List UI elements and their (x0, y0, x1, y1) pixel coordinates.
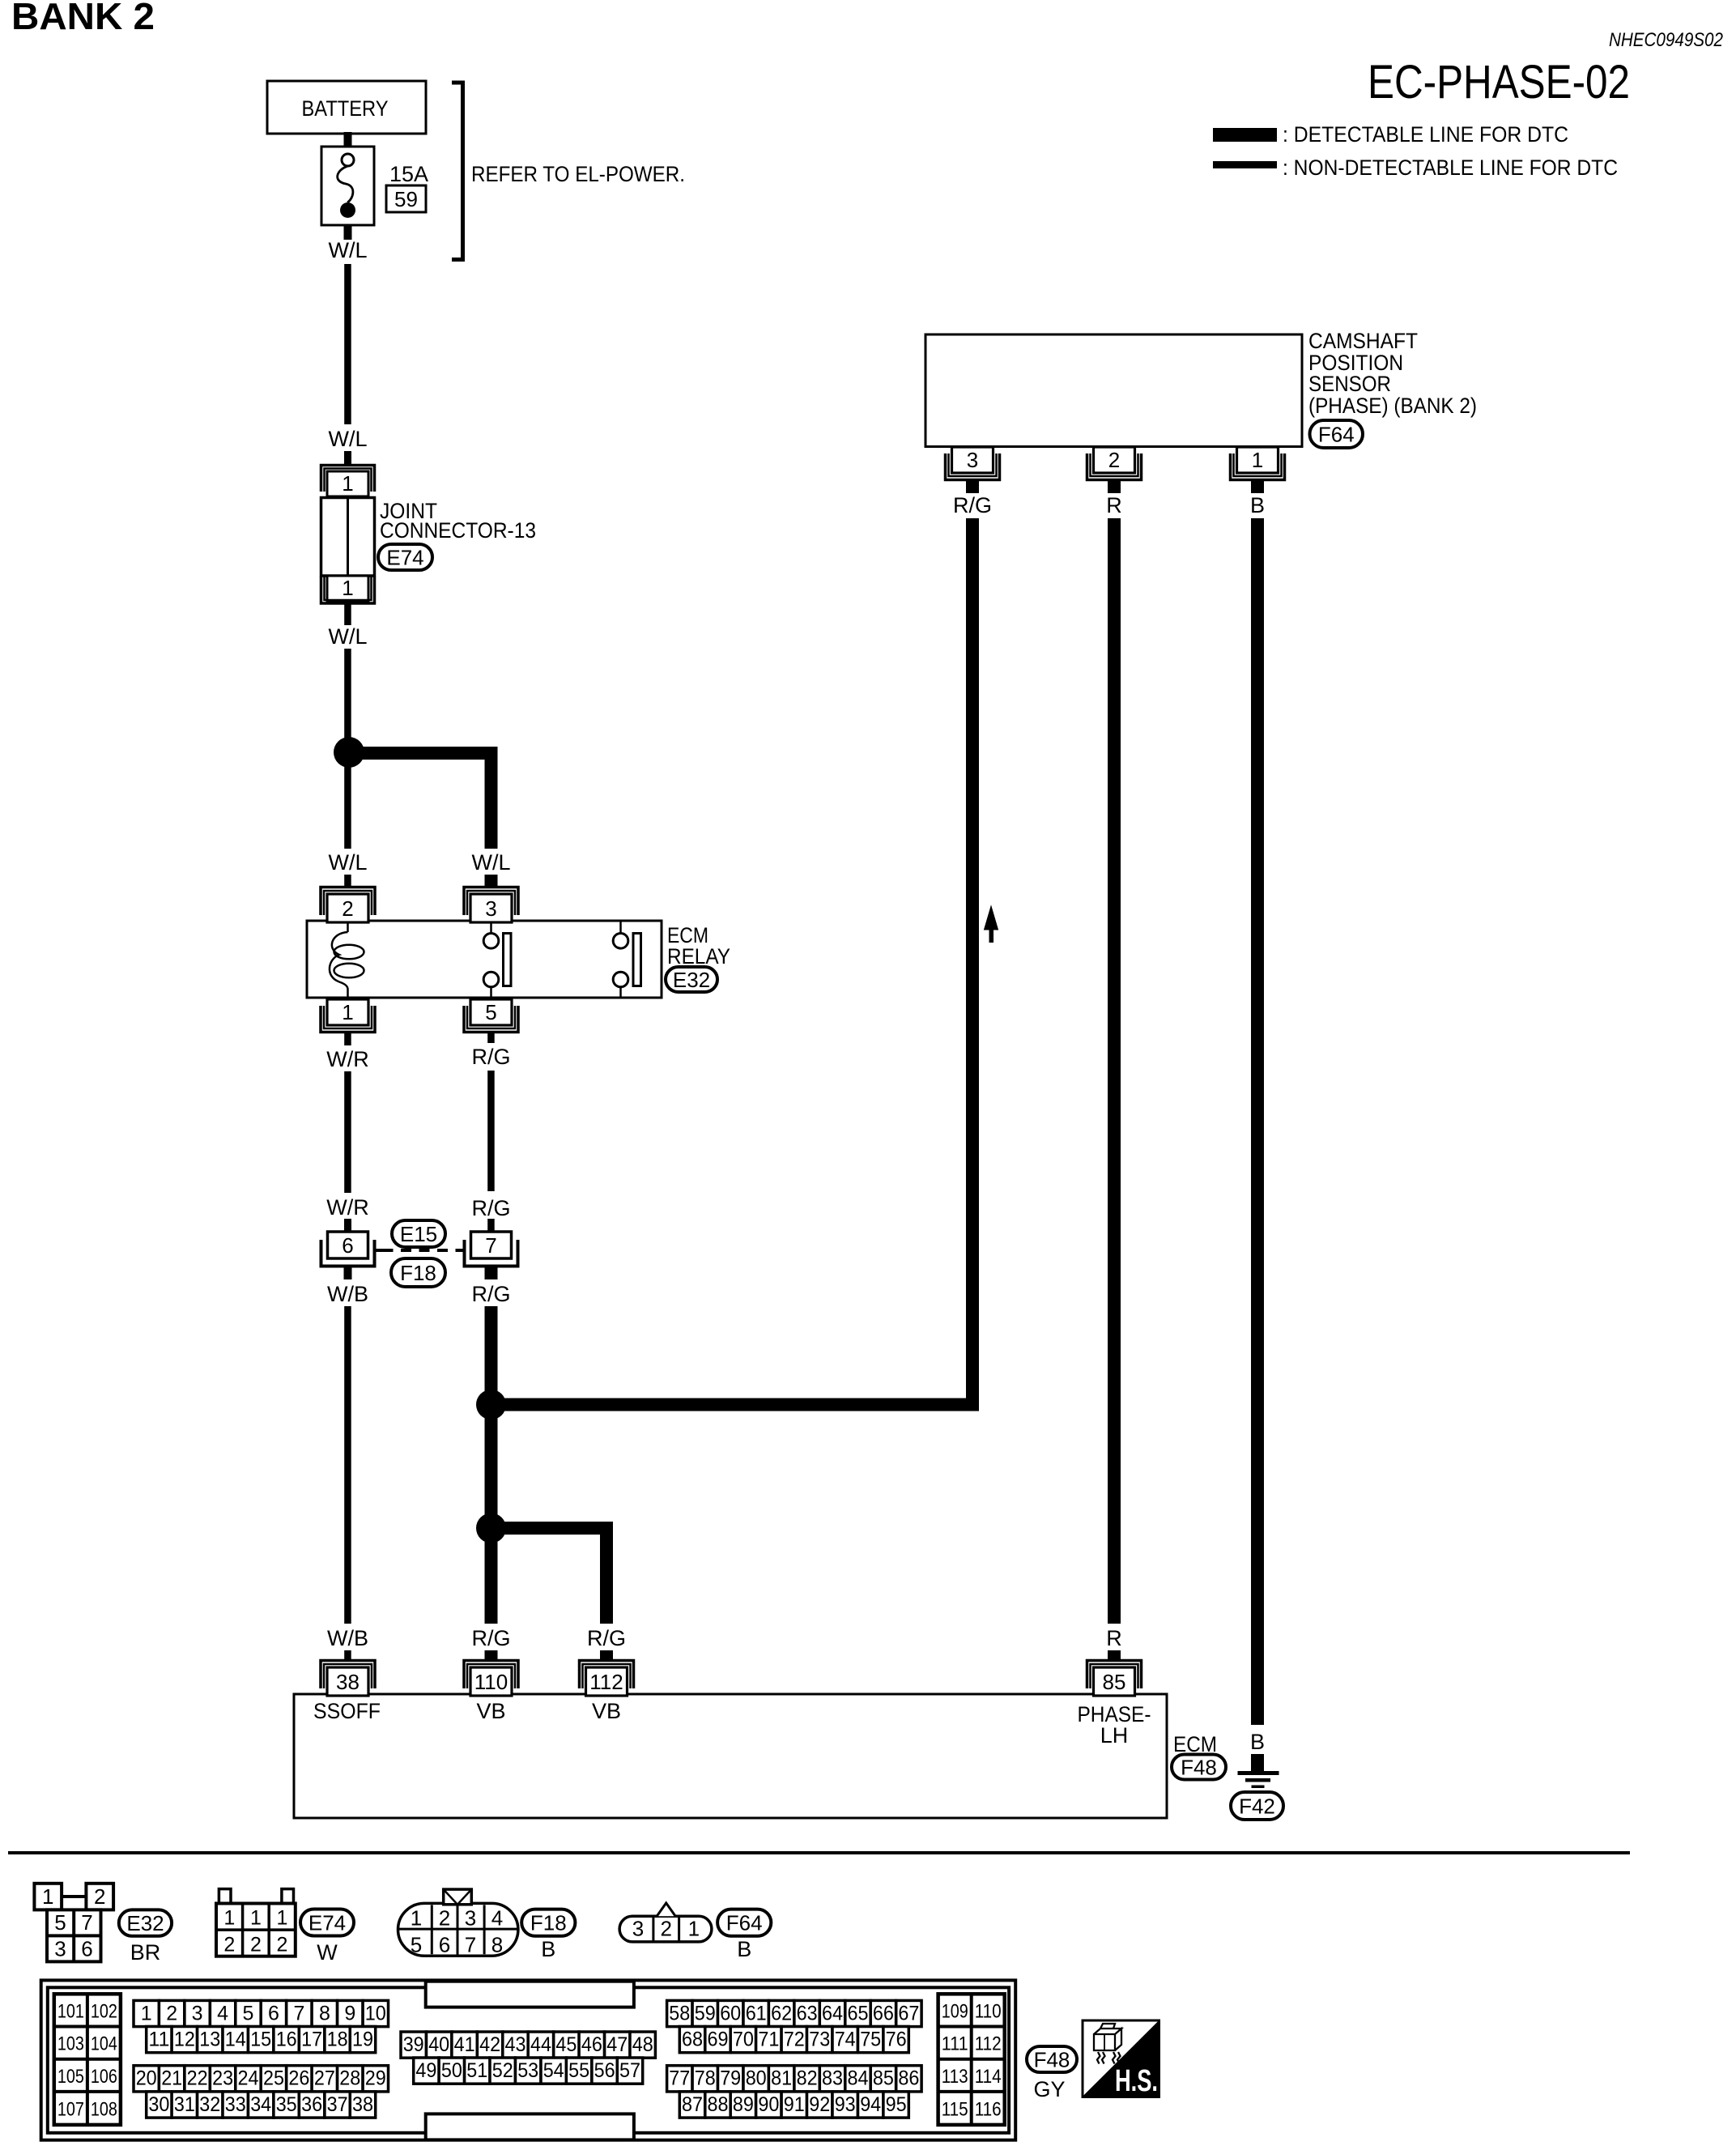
svg-text:27: 27 (314, 2067, 335, 2090)
battery (267, 81, 426, 134)
svg-text:29: 29 (365, 2067, 386, 2090)
svg-text:90: 90 (758, 2093, 779, 2116)
bracket refer to el-power (452, 83, 463, 260)
svg-text:2: 2 (1108, 448, 1120, 472)
svg-text:75: 75 (860, 2029, 881, 2051)
svg-text:58: 58 (669, 2002, 690, 2024)
legend detectable line sample (1213, 128, 1277, 142)
svg-text:4: 4 (491, 1906, 503, 1931)
wire battery to fuse (344, 132, 352, 147)
connector ref E32 (119, 1909, 172, 1935)
svg-text:21: 21 (161, 2067, 182, 2090)
svg-text:54: 54 (543, 2059, 564, 2082)
wire junction 2 horizontal (491, 1522, 614, 1535)
wire stub below sensor pin 1 (1251, 479, 1264, 493)
svg-text:H.S.: H.S. (1115, 2064, 1158, 2098)
svg-text:16: 16 (276, 2029, 297, 2051)
svg-text:1: 1 (223, 1907, 235, 1930)
relay pin 2 (321, 888, 375, 916)
svg-text:50: 50 (441, 2059, 462, 2082)
relay coil (347, 922, 349, 933)
ECM connector pin row 87-95 (679, 2092, 704, 2118)
ECM connector pin row 68-76 (679, 2027, 704, 2053)
svg-text:24: 24 (238, 2067, 259, 2090)
svg-text:LH: LH (1100, 1723, 1129, 1748)
svg-text:E74: E74 (386, 545, 423, 569)
svg-text:VB: VB (476, 1699, 505, 1723)
svg-text:R/G: R/G (953, 493, 992, 517)
camshaft position sensor box F64 (925, 334, 1302, 447)
svg-text:BATTERY: BATTERY (302, 96, 389, 121)
svg-text:112: 112 (975, 2033, 1002, 2055)
svg-text:67: 67 (898, 2002, 919, 2024)
svg-text:9: 9 (344, 2002, 355, 2024)
svg-text:38: 38 (352, 2093, 373, 2116)
wire W/L branch vertical to relay pin 3 (485, 747, 498, 849)
direction arrow up (985, 906, 998, 930)
svg-text:114: 114 (975, 2066, 1002, 2088)
svg-text:59: 59 (695, 2002, 716, 2024)
svg-text:52: 52 (492, 2059, 513, 2082)
inline connector pin 6 (328, 1232, 368, 1258)
connector view F64 pinout (619, 1916, 712, 1942)
connector ref E74 (378, 544, 432, 570)
svg-text:1: 1 (42, 1884, 53, 1909)
svg-text:92: 92 (809, 2093, 830, 2116)
svg-text:65: 65 (848, 2002, 869, 2024)
svg-text:7: 7 (485, 1233, 496, 1258)
svg-text:5: 5 (485, 1000, 496, 1024)
svg-text:1: 1 (342, 471, 353, 496)
svg-text:71: 71 (758, 2029, 779, 2051)
wire stub to pin 38 (344, 1650, 351, 1662)
svg-text:B: B (1250, 1730, 1265, 1754)
wire W/L branch horizontal (349, 747, 498, 760)
svg-text:85: 85 (873, 2067, 894, 2090)
svg-text:E74: E74 (308, 1910, 346, 1935)
svg-text:3: 3 (54, 1937, 66, 1961)
svg-text:70: 70 (733, 2029, 754, 2051)
connector ref F64 (717, 1909, 771, 1936)
wire branch down to pin 112 (600, 1522, 613, 1624)
wire stub below pin 7 thick (485, 1267, 498, 1280)
svg-text:4: 4 (217, 2002, 228, 2024)
wire W/R (344, 1071, 351, 1193)
svg-text:1: 1 (250, 1907, 262, 1930)
ECM connector pin row 1-10 (134, 2000, 159, 2026)
svg-text:106: 106 (91, 2066, 117, 2088)
svg-text:66: 66 (873, 2002, 894, 2024)
svg-text:W/L: W/L (328, 238, 367, 262)
wire W/L (344, 264, 351, 424)
svg-text:112: 112 (589, 1670, 623, 1694)
wire R/G down through junctions (485, 1306, 498, 1624)
svg-text:7: 7 (81, 1910, 92, 1935)
svg-text:W/R: W/R (326, 1195, 368, 1220)
svg-text:NHEC0949S02: NHEC0949S02 (1609, 29, 1723, 51)
svg-text:33: 33 (225, 2093, 246, 2116)
svg-text:CAMSHAFT: CAMSHAFT (1308, 329, 1418, 353)
svg-text:7: 7 (465, 1933, 476, 1957)
svg-text:W/L: W/L (328, 850, 367, 875)
svg-text:15A: 15A (389, 162, 428, 186)
svg-text:2: 2 (166, 2002, 177, 2024)
junction node dot (476, 1390, 506, 1420)
ECM connector pin row 20-29 (134, 2066, 159, 2092)
wire stub to pin 110 (485, 1650, 498, 1662)
ECM connector pin row 49-57 (414, 2058, 439, 2084)
ECM connector top slot (426, 1982, 634, 2007)
svg-text:BANK 2: BANK 2 (11, 0, 155, 37)
svg-text:EC-PHASE-02: EC-PHASE-02 (1368, 56, 1630, 109)
H.S. harness side view icon (1083, 2020, 1159, 2098)
svg-text:45: 45 (555, 2033, 577, 2056)
wire stub to pin 7 (487, 1219, 495, 1232)
connector view E74 joint connector pinout (219, 1889, 231, 1904)
svg-text:R/G: R/G (471, 1045, 510, 1069)
F18 keying symbol (444, 1889, 472, 1905)
svg-text:2: 2 (342, 896, 353, 921)
wire junction 1 horizontal to sensor R/G (491, 1399, 980, 1411)
svg-text:W/B: W/B (327, 1282, 368, 1306)
svg-text:69: 69 (708, 2029, 729, 2051)
wire stub to pin 6 (344, 1219, 351, 1232)
svg-text:R/G: R/G (587, 1626, 626, 1650)
svg-text:1: 1 (411, 1906, 422, 1931)
svg-text:3: 3 (465, 1906, 476, 1931)
svg-text:18: 18 (327, 2029, 348, 2051)
ECM connector pin row 58-67 (667, 2000, 692, 2026)
svg-text:81: 81 (771, 2067, 792, 2090)
svg-text:6: 6 (439, 1933, 450, 1957)
relay contact left (490, 922, 492, 934)
svg-text:3: 3 (192, 2002, 203, 2024)
svg-text:55: 55 (568, 2059, 589, 2082)
relay contact bar left (504, 934, 512, 986)
ECM connector pin row 11-19 (147, 2027, 172, 2053)
svg-text:R/G: R/G (471, 1196, 510, 1220)
sensor pin 1 (1231, 453, 1285, 480)
connector ref F18 (521, 1909, 575, 1936)
svg-text:111: 111 (942, 2033, 968, 2055)
connector ref F18 (391, 1258, 445, 1287)
ECM pin 110 (464, 1661, 518, 1689)
svg-text:6: 6 (81, 1937, 92, 1961)
svg-text:W/L: W/L (328, 427, 367, 451)
ECM connector view F48 outer (41, 1980, 1016, 2139)
wire W/L below joint connector (344, 603, 351, 625)
svg-text:51: 51 (466, 2059, 487, 2082)
wire R down to ECM pin 85 (1108, 518, 1121, 1624)
separator line (8, 1851, 1630, 1854)
svg-text:17: 17 (301, 2029, 322, 2051)
svg-text:19: 19 (352, 2029, 373, 2051)
svg-text:5: 5 (243, 2002, 254, 2024)
svg-text:RELAY: RELAY (667, 944, 730, 969)
svg-text:74: 74 (835, 2029, 856, 2051)
svg-text:78: 78 (695, 2067, 716, 2090)
svg-text:7: 7 (293, 2002, 304, 2024)
svg-text:43: 43 (505, 2033, 526, 2056)
wire stub to ground (1251, 1754, 1264, 1771)
svg-text:5: 5 (54, 1910, 66, 1935)
ECM connector pin row 77-86 (667, 2066, 692, 2092)
svg-text:5: 5 (411, 1933, 422, 1957)
wire W/L fuse down (344, 225, 352, 240)
svg-text:34: 34 (250, 2093, 271, 2116)
svg-text:2: 2 (250, 1934, 262, 1956)
svg-text:56: 56 (594, 2059, 615, 2082)
svg-text:28: 28 (339, 2067, 360, 2090)
svg-text:F64: F64 (1318, 422, 1355, 446)
wire stub to pin 85 (1108, 1650, 1121, 1662)
F18 grid (398, 1928, 518, 1931)
svg-text:68: 68 (682, 2029, 703, 2051)
connector ref F48 (1172, 1755, 1226, 1780)
inline connector pin 7 (471, 1232, 512, 1258)
sensor pin 2 (1087, 453, 1142, 480)
svg-text:110: 110 (975, 2000, 1002, 2022)
svg-text:76: 76 (886, 2029, 907, 2051)
svg-text:37: 37 (327, 2093, 348, 2116)
F64 keying triangle (657, 1903, 675, 1916)
connector ref E15 (392, 1220, 445, 1247)
ECM connector pin row 30-38 (147, 2092, 172, 2118)
svg-text:: DETECTABLE LINE FOR DTC: : DETECTABLE LINE FOR DTC (1283, 122, 1568, 147)
svg-text:94: 94 (860, 2093, 881, 2116)
svg-text:F64: F64 (726, 1911, 763, 1935)
svg-text:41: 41 (454, 2033, 475, 2056)
svg-text:53: 53 (517, 2059, 538, 2082)
svg-text:108: 108 (91, 2099, 117, 2121)
svg-text:88: 88 (708, 2093, 729, 2116)
svg-text:6: 6 (268, 2002, 279, 2024)
svg-text:109: 109 (942, 2000, 968, 2022)
wire stub to relay pin 3 (485, 875, 498, 888)
svg-text:W/L: W/L (471, 850, 510, 875)
connector ref F64 (1310, 420, 1364, 448)
connector view F18 pinout (398, 1903, 518, 1956)
joint connector-13 E74 top bracket (321, 466, 375, 492)
svg-text:CONNECTOR-13: CONNECTOR-13 (380, 518, 536, 543)
svg-text:R: R (1106, 493, 1122, 517)
svg-text:1: 1 (342, 1000, 353, 1024)
svg-text:83: 83 (822, 2067, 843, 2090)
wire W/B to ECM pin 38 (344, 1306, 351, 1624)
svg-text:35: 35 (276, 2093, 297, 2116)
wire stub below relay pin 1 (344, 1031, 351, 1045)
svg-text:E15: E15 (400, 1222, 437, 1246)
svg-text:80: 80 (746, 2067, 767, 2090)
svg-text:95: 95 (886, 2093, 907, 2116)
wire stub below sensor pin 2 (1108, 479, 1121, 493)
svg-text:48: 48 (632, 2033, 653, 2056)
svg-text:BR: BR (130, 1940, 161, 1965)
svg-text:2: 2 (94, 1884, 105, 1909)
svg-text:105: 105 (57, 2066, 84, 2088)
junction node dot (334, 737, 364, 768)
svg-text:8: 8 (491, 1933, 503, 1957)
svg-text:11: 11 (148, 2029, 169, 2051)
svg-text:GY: GY (1033, 2077, 1065, 2101)
svg-text:B: B (1250, 493, 1265, 517)
svg-text:87: 87 (682, 2093, 703, 2116)
wire stub below pin 6 (344, 1267, 352, 1280)
ECM relay body E32 (307, 921, 662, 998)
wire stub below relay pin 5 (487, 1031, 495, 1043)
svg-text:1: 1 (1252, 448, 1263, 472)
svg-text:116: 116 (975, 2099, 1002, 2121)
svg-text:110: 110 (474, 1670, 508, 1694)
svg-text:W/L: W/L (328, 624, 367, 649)
svg-text:E32: E32 (673, 968, 710, 992)
svg-text:113: 113 (942, 2066, 968, 2088)
svg-text:3: 3 (485, 896, 496, 921)
svg-text:1: 1 (688, 1917, 700, 1941)
svg-text:6: 6 (342, 1233, 353, 1258)
ECM pin 85 (1087, 1661, 1142, 1689)
joint connector-13 E74 body (321, 498, 375, 577)
wire B down to ground (1251, 518, 1264, 1725)
svg-text:: NON-DETECTABLE LINE FOR DTC: : NON-DETECTABLE LINE FOR DTC (1283, 155, 1618, 180)
svg-text:49: 49 (415, 2059, 436, 2082)
svg-text:23: 23 (212, 2067, 233, 2090)
svg-text:38: 38 (336, 1670, 360, 1694)
svg-text:84: 84 (848, 2067, 869, 2090)
svg-text:47: 47 (606, 2033, 628, 2056)
svg-text:14: 14 (225, 2029, 246, 2051)
connector ref F42 (1231, 1792, 1283, 1820)
ECM connector left pin grid 101-108 (54, 1994, 121, 2125)
svg-text:2: 2 (223, 1934, 235, 1956)
connector view E32 relay pinout (34, 1884, 62, 1910)
svg-text:F18: F18 (400, 1261, 436, 1285)
connector ref E74 (300, 1909, 354, 1936)
fuse number box 59 (386, 185, 426, 212)
svg-text:1: 1 (342, 576, 353, 600)
svg-text:31: 31 (174, 2093, 195, 2116)
ECM connector bottom slot (426, 2114, 634, 2139)
svg-text:102: 102 (91, 2000, 117, 2022)
dashed connector separation line (383, 1249, 458, 1252)
svg-text:W/B: W/B (327, 1626, 368, 1650)
svg-text:F42: F42 (1239, 1794, 1275, 1818)
wire stub below sensor pin 3 (966, 479, 979, 493)
svg-text:10: 10 (365, 2002, 386, 2024)
svg-text:101: 101 (57, 2000, 84, 2022)
svg-text:44: 44 (530, 2033, 551, 2056)
svg-text:15: 15 (250, 2029, 271, 2051)
svg-text:115: 115 (942, 2099, 968, 2121)
relay contact bar right (633, 934, 641, 986)
wire stub to relay pin 2 (344, 875, 351, 888)
wire stub to pin 112 (600, 1650, 613, 1662)
svg-text:22: 22 (187, 2067, 208, 2090)
svg-text:26: 26 (288, 2067, 309, 2090)
svg-text:VB: VB (592, 1699, 621, 1723)
svg-text:85: 85 (1103, 1670, 1126, 1694)
svg-text:93: 93 (835, 2093, 856, 2116)
svg-text:59: 59 (394, 187, 418, 211)
fuse 15A 59 (321, 147, 374, 225)
svg-text:SSOFF: SSOFF (313, 1699, 381, 1723)
legend non-detectable line sample (1213, 161, 1277, 168)
ECM pin 112 (580, 1661, 634, 1689)
svg-text:B: B (737, 1937, 751, 1961)
svg-text:F18: F18 (530, 1911, 567, 1935)
svg-text:1: 1 (277, 1907, 288, 1930)
svg-text:79: 79 (720, 2067, 741, 2090)
svg-text:20: 20 (136, 2067, 157, 2090)
svg-text:57: 57 (619, 2059, 640, 2082)
svg-text:R/G: R/G (471, 1282, 510, 1306)
wire W/L to relay pin 2 (344, 649, 351, 849)
ECM pin 38 (321, 1661, 375, 1689)
svg-text:3: 3 (967, 448, 978, 472)
ECM connector right pin grid 109-116 (938, 1994, 1005, 2125)
wire R/G sensor down to junction line (966, 518, 979, 1411)
joint connector-13 E74 bottom bracket (321, 577, 375, 603)
relay pin 3 (464, 888, 518, 916)
svg-text:25: 25 (263, 2067, 284, 2090)
ECM connector view inner border (48, 1987, 1009, 2133)
svg-text:77: 77 (669, 2067, 690, 2090)
ECM connector pin row 39-48 (401, 2032, 426, 2058)
svg-text:60: 60 (720, 2002, 741, 2024)
connector ref F48 (1027, 2046, 1077, 2072)
sensor pin 3 (946, 453, 1000, 480)
relay pin 5 (464, 1006, 518, 1032)
svg-text:104: 104 (91, 2033, 117, 2055)
svg-text:89: 89 (733, 2093, 754, 2116)
svg-text:W: W (317, 1940, 338, 1965)
svg-text:3: 3 (632, 1917, 644, 1941)
svg-text:(PHASE) (BANK 2): (PHASE) (BANK 2) (1308, 394, 1477, 418)
svg-text:82: 82 (797, 2067, 818, 2090)
svg-text:36: 36 (301, 2093, 322, 2116)
relay pin 1 (321, 1006, 375, 1032)
svg-text:E32: E32 (126, 1911, 164, 1935)
joint connector-13 E74 pin 1 top box (327, 471, 368, 496)
svg-text:46: 46 (581, 2033, 602, 2056)
svg-text:8: 8 (319, 2002, 330, 2024)
svg-text:103: 103 (57, 2033, 84, 2055)
svg-text:30: 30 (148, 2093, 169, 2116)
svg-text:91: 91 (784, 2093, 805, 2116)
svg-text:107: 107 (57, 2099, 84, 2121)
svg-text:64: 64 (822, 2002, 843, 2024)
svg-text:63: 63 (797, 2002, 818, 2024)
wire R/G (487, 1071, 495, 1191)
joint connector-13 E74 pin 1 bottom box (327, 576, 368, 601)
junction node dot (476, 1514, 506, 1543)
svg-text:B: B (541, 1937, 555, 1961)
svg-text:39: 39 (403, 2033, 424, 2056)
svg-text:REFER TO EL-POWER.: REFER TO EL-POWER. (471, 162, 685, 186)
svg-text:12: 12 (174, 2029, 195, 2051)
svg-text:2: 2 (439, 1906, 450, 1931)
svg-text:13: 13 (199, 2029, 220, 2051)
svg-text:2: 2 (277, 1934, 288, 1956)
ground symbol (1238, 1771, 1279, 1775)
svg-text:32: 32 (199, 2093, 220, 2116)
svg-text:F48: F48 (1034, 2047, 1070, 2071)
svg-text:R/G: R/G (471, 1626, 510, 1650)
ECM box F48 (294, 1694, 1167, 1818)
svg-text:42: 42 (479, 2033, 500, 2056)
svg-text:62: 62 (771, 2002, 792, 2024)
svg-text:F48: F48 (1181, 1755, 1217, 1779)
